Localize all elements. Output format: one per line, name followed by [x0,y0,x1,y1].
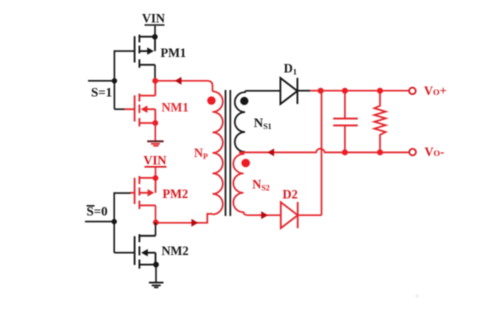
arrow on NS2 lead (points right) [261,211,268,219]
wire NM2 source to ground [155,265,157,283]
wire center tap rail (Vo-) with hop [239,149,409,153]
wire S=1 input [88,80,114,82]
ground (NM1) [147,141,163,146]
transformer core line right [229,90,231,216]
transistor PM1 [135,35,155,68]
arrow on bottom primary lead (points right) [191,219,198,227]
capacitor C (output filter) [333,91,358,153]
arrow on center tap rail (points left) [267,149,274,157]
node: PM1 drain/bulk tie dot [152,34,158,40]
faint speckle artifact [416,295,419,298]
terminal Vo+ circle [409,88,416,95]
transformer core line left [225,90,227,216]
svg-text:NP: NP [194,146,208,161]
node cap top dot [342,88,348,94]
svg-text:VIN: VIN [142,12,165,26]
svg-text:NS1: NS1 [254,115,272,131]
wire primary bottom lead [156,214,213,223]
diode D2 [281,202,298,228]
label VIN (PM2 supply, red) [144,154,167,168]
svg-text:VO+: VO+ [424,84,447,98]
secondary winding NS2 [233,153,261,216]
secondary winding NS1 [235,91,281,152]
wire node down to NM2 (black) [155,222,157,235]
label VIN (top supply) [142,12,165,26]
wire VIN to PM1 drain [154,26,156,37]
polarity dot NS2 [241,159,250,168]
transformer primary winding Np [213,91,223,214]
node PM1-NM1 drain dot (red) [152,78,158,84]
wire drain node to primary top [155,81,212,92]
svg-text:S=0: S=0 [87,204,108,219]
svg-text:NS2: NS2 [252,178,269,193]
wire PM1 gate lead [114,50,134,52]
wire gate bus lower [113,192,115,252]
transistor NM2 [135,234,156,268]
svg-text:NM2: NM2 [162,244,189,258]
svg-text:D1: D1 [284,62,297,77]
node cap bottom dot [342,149,348,155]
diode D1 [280,78,297,104]
wire D2 cathode to riser [298,214,322,216]
polarity dot primary [207,96,215,104]
wire PM2 gate lead black part [114,192,130,194]
svg-text:VIN: VIN [144,154,167,168]
wire Sbar=0 input [85,221,114,223]
svg-text:PM2: PM2 [163,187,189,201]
svg-text:D2: D2 [283,188,298,202]
svg-text:PM1: PM1 [161,46,187,60]
svg-text:S=1: S=1 [91,85,112,100]
transistor PM2 [130,176,156,209]
node NM1 source dot [152,120,158,126]
node D1/D2 junction dot [318,88,324,94]
svg-text:VO-: VO- [425,145,445,159]
transistor NM1 [125,81,156,127]
wire NM1 gate lead black part [114,108,124,110]
wire gate bus upper (S node) [113,50,115,109]
arrow on top primary lead (points left) [175,77,182,85]
wire output top rail [321,90,409,92]
wire PM2 drain down to node [155,205,157,222]
resistor R (load) [374,91,385,153]
node Sbar junction dot [112,219,117,224]
node resistor top dot [377,88,383,94]
polarity dot NS1 [240,97,248,105]
wire NM1 source to ground [154,123,156,141]
ground (NM2) [149,283,164,288]
wire PM1 source down (black) [154,65,156,79]
node NM2 source dot [153,262,159,268]
node resistor bottom dot [377,149,383,155]
terminal Vo- circle [409,149,416,156]
wire NM2 gate lead [114,252,134,254]
node PM2 source/bulk dot [153,175,159,181]
wire D1 cathode to top rail (red) [310,90,321,92]
wire NS2 to D2 anode [258,214,281,216]
node PM2-NM2 drain dot (red) [153,220,159,226]
wire D1 cathode black part [297,90,310,92]
wire VIN2 to PM2 [155,168,157,178]
wire D2 riser up to top rail [321,91,323,216]
label Sbar=0 [87,204,108,219]
node S junction dot [112,78,117,83]
svg-text:NM1: NM1 [162,101,189,115]
